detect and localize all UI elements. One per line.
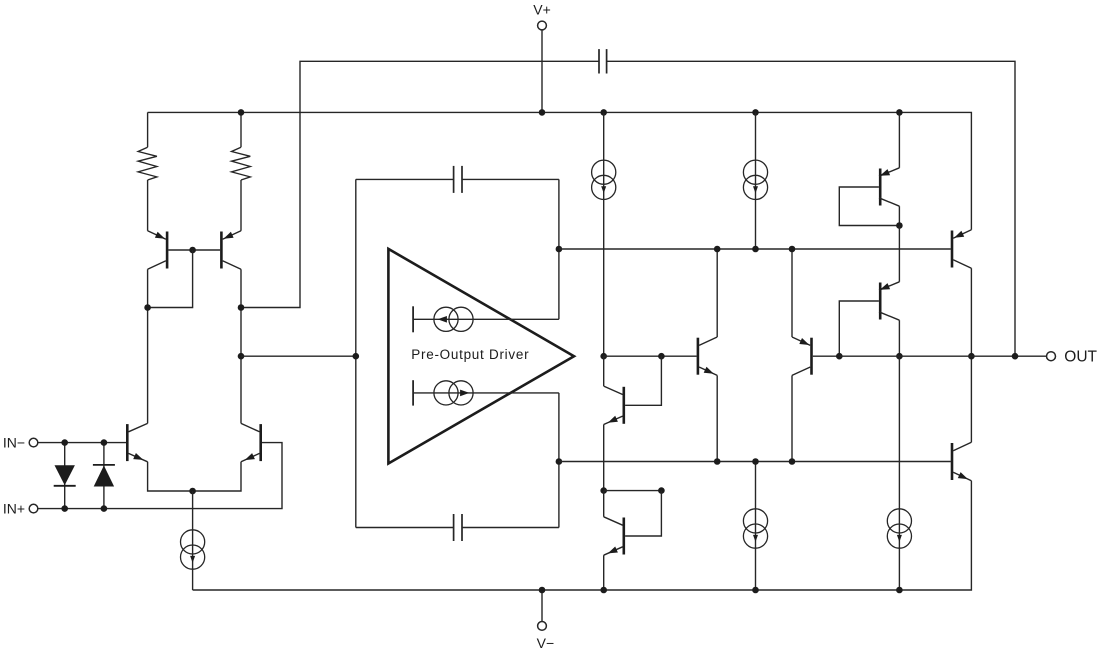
resistor R1: [138, 147, 157, 180]
node tail: [189, 488, 196, 495]
wire left resistor top lead: [147, 112, 149, 147]
node OUT line output transistors: [968, 353, 975, 360]
svg-text:IN+: IN+: [3, 500, 25, 516]
node lower drive Q6: [789, 458, 796, 465]
wire Q9 base loop: [839, 187, 899, 226]
wire Q6 base line: [813, 355, 840, 357]
wire diode branch D2: [103, 443, 105, 509]
wire Q7-Q8 node link: [604, 490, 662, 492]
node driver upper output: [556, 246, 563, 253]
svg-text:V+: V+: [533, 2, 551, 18]
wire Q7 emitter drop: [603, 425, 605, 491]
wire Q1 collector column: [147, 269, 149, 423]
node upper drive CS2: [752, 246, 759, 253]
node V+ rail right resistor: [238, 109, 245, 116]
node V+ rail V+ stub: [539, 109, 546, 116]
wire V+ stub: [541, 30, 543, 112]
wire Q9 emitter lead: [898, 112, 900, 167]
transistor Q6 (PNP): [792, 337, 812, 375]
resistor R2: [232, 147, 251, 180]
node driver lower output: [556, 458, 563, 465]
capacitor C3 (driver bottom): [454, 514, 462, 541]
node V+ rail CS1: [600, 109, 607, 116]
wire driver box right edge upper: [558, 179, 560, 319]
wire Q8 base loop: [625, 491, 661, 536]
node V&#8722; rail CS4: [896, 587, 903, 594]
wire Q5 emitter drop: [716, 375, 718, 461]
wire Q1-Q2 base link: [168, 249, 220, 251]
node D1 bottom: [61, 505, 68, 512]
wire lower bias source line: [413, 392, 559, 394]
wire tail current source branch: [192, 491, 194, 590]
svg-text:Pre-Output Driver: Pre-Output Driver: [411, 347, 529, 362]
transistor Q2 (PNP mirror right): [221, 231, 241, 269]
wire CS1 branch: [603, 112, 605, 356]
wire V+ rail: [148, 112, 972, 229]
wire Q5 collector riser: [716, 249, 718, 337]
wire Q10 collector lead: [898, 320, 900, 356]
wire comp rail right segment to OUT riser: [607, 61, 1015, 356]
wire IN&#8722; line: [38, 442, 126, 444]
wire lower drive line: [559, 461, 951, 463]
transistor Q5 (NPN): [698, 337, 717, 375]
wire Q2 collector column: [240, 269, 242, 423]
node lower drive CS3: [752, 458, 759, 465]
wire CS2 branch: [755, 112, 757, 249]
node Q2 collector: [238, 304, 245, 311]
current source I5: [743, 160, 767, 199]
current source I2 (upper, arrow left): [434, 307, 473, 331]
transistor Q3 (NPN input left): [127, 423, 147, 461]
node V+ rail Q9: [896, 109, 903, 116]
wire V&#8722; rail: [193, 481, 972, 590]
pre-output driver box bottom edge: [356, 527, 559, 529]
wire upper bias source line: [413, 318, 559, 320]
capacitor C2 (driver top): [454, 166, 462, 193]
wire driver box left edge: [355, 179, 357, 527]
node second stage feed: [238, 353, 245, 360]
wire Q6 collector drop: [791, 375, 793, 461]
terminal OUT: [1047, 352, 1056, 361]
wire Q5 base line: [604, 355, 697, 357]
wire Q8 emitter drop: [603, 555, 605, 590]
current source I6: [743, 509, 767, 548]
upper bias source plate: [412, 306, 414, 332]
wire Q10 base loop: [839, 301, 879, 356]
node mirror base: [189, 247, 196, 254]
wire first stage to driver input: [241, 355, 356, 357]
node Q7-Q8 junction: [600, 487, 607, 494]
diode D1 (cathode down): [54, 465, 76, 486]
node V&#8722; rail Q8: [600, 587, 607, 594]
wire diode branch D1: [64, 443, 66, 509]
node D2 top: [101, 439, 108, 446]
node Q1 collector: [144, 304, 151, 311]
wire Q12 collector riser: [970, 356, 972, 442]
node Q8 base tie: [658, 487, 665, 494]
current source I7: [887, 509, 911, 548]
node Q9-Q10 junction: [896, 222, 903, 229]
node V+ rail CS2: [752, 109, 759, 116]
node Q7 base tie: [658, 353, 665, 360]
transistor Q10 (PNP diode): [879, 282, 899, 320]
node V&#8722; rail CS3: [752, 587, 759, 594]
terminal V+: [538, 21, 547, 30]
transistor Q1 (PNP mirror left): [148, 231, 168, 269]
current source I3 (lower, arrow right): [434, 381, 473, 405]
node lower drive Q5: [714, 458, 721, 465]
node V&#8722; rail at V&#8722; stub: [539, 587, 546, 594]
wire upper drive line: [559, 248, 951, 250]
wire driver box right edge lower: [558, 393, 560, 528]
node D2 bottom: [101, 505, 108, 512]
wire Q10 emitter lead: [898, 226, 900, 282]
capacitor C1 (compensation): [599, 49, 607, 73]
wire left resistor bottom lead: [147, 180, 149, 231]
diode D2 (cathode up): [93, 465, 115, 487]
op-amp U1 triangle (pre-output driver): [388, 249, 574, 464]
node OUT line comp cap: [1012, 353, 1019, 360]
terminal IN+: [29, 504, 38, 513]
wire OUT line: [839, 355, 1046, 357]
node OUT line Q10 collector: [896, 353, 903, 360]
wire right resistor top lead: [240, 112, 242, 147]
wire Q8 collector riser: [603, 491, 605, 517]
wire Q7 base loop: [625, 356, 661, 405]
terminal IN&#8722;: [29, 438, 38, 447]
current source I4: [592, 160, 616, 199]
terminal V&#8722;: [538, 622, 547, 631]
wire right resistor bottom lead: [240, 180, 242, 231]
wire mirror diode connection: [148, 250, 193, 308]
node D1 top: [61, 439, 68, 446]
transistor Q4 (NPN input right): [241, 423, 261, 461]
svg-text:V−: V−: [537, 635, 555, 651]
node OUT line Q10 base tie: [836, 353, 843, 360]
svg-text:OUT: OUT: [1064, 348, 1097, 365]
transistor Q12 (NPN output): [952, 442, 971, 480]
wire Q9 collector lead: [898, 206, 900, 225]
wire Q6 emitter riser: [791, 249, 793, 337]
svg-text:IN−: IN−: [3, 434, 25, 450]
transistor Q9 (PNP diode): [879, 168, 899, 206]
transistor Q11 (PNP output): [952, 230, 971, 268]
wire Q7 collector riser: [603, 356, 605, 386]
transistor Q7 (NPN diode): [604, 386, 624, 424]
wire IN+ line: [38, 443, 282, 509]
lower bias source plate: [412, 380, 414, 405]
transistor Q8 (NPN diode): [604, 517, 624, 555]
wire CS3 branch: [755, 462, 757, 591]
node upper drive Q5: [714, 246, 721, 253]
wire CS4 branch: [898, 356, 900, 590]
current source I1 (tail): [181, 530, 205, 569]
wire emitter coupling: [148, 462, 241, 491]
node upper drive Q6: [789, 246, 796, 253]
wire Q11 collector drop: [970, 268, 972, 356]
pre-output driver box top edge: [356, 178, 559, 180]
node CS1 output: [600, 353, 607, 360]
node driver input: [353, 353, 360, 360]
wire first-stage output to comp-rail left riser: [241, 61, 599, 307]
wire V&#8722; stub: [541, 590, 543, 621]
